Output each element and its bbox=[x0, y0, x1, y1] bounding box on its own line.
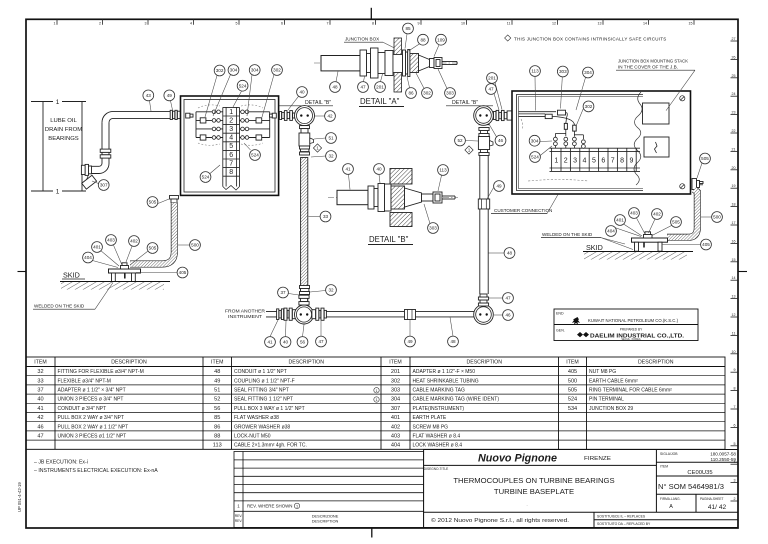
pull box 3 way item 56 bbox=[295, 305, 314, 324]
svg-text:524: 524 bbox=[202, 175, 210, 180]
svg-text:401: 401 bbox=[616, 218, 624, 223]
svg-text:48: 48 bbox=[214, 369, 220, 375]
svg-text:ITEM: ITEM bbox=[389, 360, 401, 366]
svg-text:13: 13 bbox=[598, 22, 602, 26]
svg-text:DESCRIPTION: DESCRIPTION bbox=[638, 360, 674, 366]
svg-text:56: 56 bbox=[300, 340, 306, 345]
svg-text:4: 4 bbox=[190, 22, 192, 26]
svg-text:SEAL FITTING 1 1/2" NPT: SEAL FITTING 1 1/2" NPT bbox=[234, 397, 293, 403]
balloon 404 lock washer bbox=[83, 252, 94, 263]
mounting stack rect lower bbox=[644, 137, 669, 157]
svg-text:DISEGNO-TITLE: DISEGNO-TITLE bbox=[424, 467, 448, 471]
balloon 85 flat washer bbox=[403, 23, 414, 34]
svg-text:500: 500 bbox=[713, 215, 721, 220]
svg-text:33: 33 bbox=[37, 378, 43, 384]
svg-text:49: 49 bbox=[496, 184, 502, 189]
svg-text:PLATE(INSTRUMENT): PLATE(INSTRUMENT) bbox=[413, 406, 465, 412]
svg-text:THIS JUNCTION BOX CONTAINS INT: THIS JUNCTION BOX CONTAINS INTRINSICALLY… bbox=[514, 36, 667, 41]
detail B centerline bbox=[328, 197, 458, 199]
svg-text:21: 21 bbox=[732, 147, 736, 151]
left JB internal wires right side bbox=[240, 110, 277, 140]
svg-text:JUNCTION BOX: JUNCTION BOX bbox=[345, 37, 379, 42]
svg-text:JUNCTION BOX 29: JUNCTION BOX 29 bbox=[589, 406, 633, 412]
svg-text:DETAIL "B": DETAIL "B" bbox=[452, 100, 478, 106]
execution notes bbox=[34, 460, 158, 475]
fold mark bottom center bbox=[371, 528, 373, 538]
svg-text:401: 401 bbox=[93, 245, 101, 250]
svg-text:47: 47 bbox=[360, 85, 366, 90]
fold mark left middle bbox=[18, 271, 27, 273]
svg-text:DESCRIPTION: DESCRIPTION bbox=[111, 360, 147, 366]
svg-text:304: 304 bbox=[584, 70, 592, 75]
svg-text:524: 524 bbox=[239, 83, 247, 88]
svg-text:19: 19 bbox=[732, 184, 736, 188]
pull box item 46 top bbox=[474, 106, 494, 126]
svg-text:FROM ANOTHER: FROM ANOTHER bbox=[225, 309, 265, 314]
svg-text:SEOUL, KOREA: SEOUL, KOREA bbox=[621, 337, 641, 341]
balloon 32 flexible fitting bbox=[326, 285, 337, 296]
union item 47 above right pull box bbox=[478, 294, 488, 306]
svg-text:ITEM: ITEM bbox=[211, 360, 223, 366]
svg-text:LOCK WASHER ø 8.4: LOCK WASHER ø 8.4 bbox=[413, 443, 463, 449]
balloon 48 conduit bbox=[504, 248, 515, 259]
svg-text:48: 48 bbox=[450, 339, 456, 344]
svg-text:42: 42 bbox=[37, 415, 43, 421]
svg-text:2: 2 bbox=[734, 497, 736, 501]
balloon 524 pin terminal bbox=[200, 172, 211, 183]
detail B reference label left bbox=[279, 100, 333, 106]
flexible end fitting item 32 bottom bbox=[300, 286, 310, 299]
balloon 505 ring terminal bbox=[671, 217, 682, 228]
svg-text:524: 524 bbox=[568, 397, 577, 403]
svg-text:ITEM: ITEM bbox=[34, 360, 46, 366]
balloon 403 flat washer bbox=[106, 235, 117, 246]
customer companies box bbox=[554, 309, 698, 341]
svg-text:404: 404 bbox=[391, 443, 400, 449]
revision row 1 bbox=[237, 503, 299, 508]
revision diamond 1 bbox=[465, 146, 473, 154]
svg-text:.: . bbox=[526, 502, 527, 507]
svg-text:16: 16 bbox=[732, 239, 736, 243]
union 47 and adapter 201 at right JB entry bbox=[494, 110, 513, 120]
svg-text:47: 47 bbox=[488, 87, 494, 92]
svg-text:IN THE COVER OF THE J.B.: IN THE COVER OF THE J.B. bbox=[618, 64, 678, 69]
fittings right of pull box 56 bbox=[312, 308, 327, 320]
svg-text:8: 8 bbox=[734, 387, 736, 391]
svg-text:SIGLA/JOB: SIGLA/JOB bbox=[660, 452, 678, 456]
customer connection label bbox=[491, 195, 558, 214]
balloon 33 flexible bbox=[320, 211, 331, 222]
svg-text:302: 302 bbox=[423, 91, 431, 96]
balloon 47 union bbox=[358, 82, 369, 93]
svg-text:RING TERMINAL FOR CABLE 6mm²: RING TERMINAL FOR CABLE 6mm² bbox=[589, 388, 672, 394]
svg-text:2: 2 bbox=[229, 117, 233, 124]
balloon 40 union bbox=[297, 87, 308, 98]
svg-text:EARTH PLATE: EARTH PLATE bbox=[413, 415, 447, 421]
conduit item 48 riser bbox=[480, 156, 488, 295]
svg-text:403: 403 bbox=[107, 238, 115, 243]
svg-text:3: 3 bbox=[573, 158, 577, 165]
svg-text:PULL BOX 2 WAY ø 3/4" NPT: PULL BOX 2 WAY ø 3/4" NPT bbox=[58, 415, 125, 421]
svg-text:41/ 42: 41/ 42 bbox=[708, 504, 727, 511]
svg-text:10: 10 bbox=[461, 22, 465, 26]
balloon 46 pull box bbox=[495, 135, 506, 146]
svg-text:A: A bbox=[669, 504, 673, 510]
svg-text:52: 52 bbox=[214, 397, 220, 403]
svg-text:FIRMA-LANG.: FIRMA-LANG. bbox=[660, 497, 681, 501]
svg-text:1: 1 bbox=[229, 109, 233, 116]
svg-text:302: 302 bbox=[391, 378, 400, 384]
svg-text:1: 1 bbox=[375, 389, 377, 393]
svg-text:48: 48 bbox=[332, 85, 338, 90]
detail A centerline bbox=[314, 62, 460, 64]
cable fitting detail B bbox=[422, 192, 456, 203]
mounting stack rect upper bbox=[643, 103, 670, 124]
svg-text:UP 051-4-42-19: UP 051-4-42-19 bbox=[17, 482, 22, 512]
balloon 303 cable tag bbox=[428, 223, 439, 234]
union item 40 detail B bbox=[368, 184, 385, 212]
wire branches to terminals with pin terminals item 524 bbox=[554, 134, 586, 149]
svg-text:304: 304 bbox=[251, 68, 259, 73]
svg-text:86: 86 bbox=[214, 424, 220, 430]
right edge coordinate ticks bbox=[731, 37, 739, 501]
svg-text:HEAT SHRINKABLE TUBING: HEAT SHRINKABLE TUBING bbox=[413, 378, 479, 384]
svg-text:BEARINGS: BEARINGS bbox=[48, 136, 79, 142]
svg-text:CE00U35: CE00U35 bbox=[687, 470, 712, 476]
svg-text:505: 505 bbox=[149, 200, 157, 205]
union item 40 fittings at left JB exit wall bbox=[279, 111, 295, 121]
svg-text:505: 505 bbox=[672, 220, 680, 225]
svg-text:46: 46 bbox=[37, 424, 43, 430]
svg-text:56: 56 bbox=[214, 406, 220, 412]
svg-text:201: 201 bbox=[391, 369, 400, 375]
svg-text:CONDUIT ø 1 1/2" NPT: CONDUIT ø 1 1/2" NPT bbox=[234, 369, 287, 375]
wire conduit item 43 horizontal run bbox=[102, 111, 170, 149]
conduit item 41 detail B bbox=[337, 190, 368, 204]
svg-text:EARTH CABLE 6mm²: EARTH CABLE 6mm² bbox=[589, 378, 638, 384]
svg-text:52: 52 bbox=[457, 138, 463, 143]
svg-text:3: 3 bbox=[734, 479, 736, 483]
svg-text:9: 9 bbox=[734, 368, 736, 372]
svg-text:SKID: SKID bbox=[63, 271, 80, 280]
svg-text:1: 1 bbox=[56, 99, 60, 106]
detail A title bbox=[359, 97, 404, 107]
KNPC row bbox=[556, 312, 679, 325]
DAELIM row bbox=[556, 328, 685, 342]
svg-text:49: 49 bbox=[167, 93, 173, 98]
svg-text:88: 88 bbox=[420, 37, 426, 42]
svg-text:PULL BOX 3 WAY ø 1 1/2" NPT: PULL BOX 3 WAY ø 1 1/2" NPT bbox=[234, 406, 305, 412]
left JB terminal strip bbox=[223, 107, 240, 190]
coupling item 49 bbox=[405, 310, 416, 320]
svg-text:180.0057-58: 180.0057-58 bbox=[710, 452, 736, 457]
balloon 88 locknut bbox=[418, 34, 429, 45]
svg-text:303: 303 bbox=[446, 91, 454, 96]
svg-text:3: 3 bbox=[229, 126, 233, 133]
svg-text:302: 302 bbox=[585, 104, 593, 109]
balloon 37 adapter bbox=[278, 287, 289, 298]
balloon 40 union bbox=[374, 164, 385, 175]
coupling item 49 at JB wall bbox=[170, 110, 180, 119]
balloon 51 seal fitting bbox=[326, 133, 337, 144]
svg-text:6: 6 bbox=[229, 152, 233, 159]
from another instrument note bbox=[225, 309, 265, 319]
svg-text:505: 505 bbox=[701, 156, 709, 161]
svg-text:500: 500 bbox=[568, 378, 577, 384]
svg-text:CABLE MARKING TAG: CABLE MARKING TAG bbox=[413, 388, 465, 394]
revision header row bbox=[235, 514, 339, 524]
svg-text:DESCRIPTION: DESCRIPTION bbox=[467, 360, 503, 366]
svg-text:UNION 3 PIECES ø1 1/2" NPT: UNION 3 PIECES ø1 1/2" NPT bbox=[58, 434, 127, 440]
svg-text:4: 4 bbox=[229, 135, 233, 142]
language cell bbox=[660, 497, 681, 510]
svg-text:86: 86 bbox=[408, 91, 414, 96]
fold mark top center bbox=[370, 8, 372, 19]
svg-text:307: 307 bbox=[391, 406, 400, 412]
balloon 524 pin terminal bbox=[237, 80, 248, 91]
svg-text:524: 524 bbox=[531, 155, 539, 160]
svg-text:JUNCTION BOX MOUNTING STACK: JUNCTION BOX MOUNTING STACK bbox=[618, 59, 688, 64]
svg-text:40: 40 bbox=[37, 397, 43, 403]
conduit below union to elbow bbox=[92, 158, 110, 173]
svg-text:CONDUIT ø 3/4" NPT: CONDUIT ø 3/4" NPT bbox=[58, 406, 107, 412]
svg-text:COUPLING ø 1 1/2" NPT-F: COUPLING ø 1 1/2" NPT-F bbox=[234, 378, 295, 384]
svg-text:DRAIN FROM: DRAIN FROM bbox=[45, 127, 82, 133]
balloon 304 wire tag bbox=[583, 67, 594, 78]
svg-text:8: 8 bbox=[229, 169, 233, 176]
svg-text:PAGINA-SHEET: PAGINA-SHEET bbox=[700, 497, 724, 501]
customer cable item 113 entry bbox=[519, 110, 575, 125]
welded note left bbox=[33, 283, 113, 310]
svg-text:3: 3 bbox=[145, 22, 147, 26]
svg-text:403: 403 bbox=[391, 434, 400, 440]
svg-text:FLAT WASHER ø38: FLAT WASHER ø38 bbox=[234, 415, 279, 421]
svg-text:END: END bbox=[556, 312, 564, 316]
svg-text:302: 302 bbox=[216, 68, 224, 73]
balloon 402 screw bbox=[652, 209, 663, 220]
balloon 505 ring terminal bbox=[700, 153, 711, 164]
svg-text:51: 51 bbox=[214, 388, 220, 394]
right junction box item 534 outline bbox=[512, 91, 691, 194]
svg-text:27: 27 bbox=[732, 37, 736, 41]
junction box wall label bbox=[344, 37, 395, 49]
revision diamond 1 bbox=[313, 144, 321, 152]
balloon 505 ring terminal bbox=[147, 197, 158, 208]
balloon 32 flexible fitting bbox=[326, 151, 337, 162]
drawing title bbox=[424, 467, 615, 507]
svg-text:WELDED ON THE SKID: WELDED ON THE SKID bbox=[542, 232, 593, 237]
svg-text:6: 6 bbox=[281, 22, 283, 26]
pull box item 42 circle bbox=[295, 106, 315, 126]
svg-text:14: 14 bbox=[643, 22, 647, 26]
svg-text:51: 51 bbox=[328, 136, 334, 141]
svg-text:505: 505 bbox=[568, 388, 577, 394]
svg-text:DETAIL "A": DETAIL "A" bbox=[360, 97, 400, 106]
revision history table bbox=[234, 452, 424, 528]
svg-text:11: 11 bbox=[507, 22, 511, 26]
balloon 46 pull box bbox=[503, 310, 514, 321]
fold mark right middle bbox=[738, 271, 747, 273]
svg-text:402: 402 bbox=[653, 212, 661, 217]
items table grid bbox=[26, 357, 725, 449]
balloon 41 conduit bbox=[265, 337, 276, 348]
svg-text:FIRENZE: FIRENZE bbox=[584, 456, 612, 462]
svg-text:32: 32 bbox=[328, 288, 334, 293]
balloon 49 coupling bbox=[494, 181, 505, 192]
intrinsically safe note bbox=[505, 35, 667, 42]
balloon 201 adapter bbox=[487, 73, 498, 84]
svg-text:109: 109 bbox=[437, 37, 445, 42]
svg-text:33: 33 bbox=[323, 214, 329, 219]
svg-text:8: 8 bbox=[372, 22, 374, 26]
detail B reference label right bbox=[446, 100, 493, 106]
balloon 113 cable bbox=[530, 66, 541, 77]
balloon 109 cable bbox=[436, 34, 447, 45]
instrument plate item 307 bbox=[82, 175, 97, 189]
earth fitting on right JB wall bbox=[692, 179, 703, 190]
balloon 49 coupling bbox=[164, 90, 175, 101]
balloon 303 cable tag bbox=[445, 88, 456, 99]
svg-text:REV.: REV. bbox=[235, 514, 243, 518]
balloon 86 grower washer bbox=[406, 88, 417, 99]
balloon 302 heat shrink bbox=[583, 101, 594, 112]
svg-text:5: 5 bbox=[229, 143, 233, 150]
seal fitting item 51 below pull box bbox=[299, 126, 314, 155]
balloon 201 adapter bbox=[375, 82, 386, 93]
cable sheath dashed arcs bbox=[198, 105, 263, 145]
locknut item 88 and washers bbox=[403, 50, 410, 77]
left junction box item 534 outline bbox=[181, 96, 279, 195]
svg-text:402: 402 bbox=[391, 424, 400, 430]
svg-text:– JB EXECUTION: Ex-i: – JB EXECUTION: Ex-i bbox=[34, 460, 88, 466]
svg-text:REV. WHERE SHOWN: REV. WHERE SHOWN bbox=[247, 504, 292, 509]
svg-text:25: 25 bbox=[732, 74, 736, 78]
skid line left bbox=[60, 271, 170, 290]
svg-text:46: 46 bbox=[505, 313, 511, 318]
pull box top neck bbox=[299, 295, 309, 305]
svg-text:500: 500 bbox=[191, 243, 199, 248]
sheath dashed arc bbox=[521, 119, 588, 181]
balloon 47 union bbox=[486, 84, 497, 95]
balloon 304 wire tag bbox=[529, 135, 540, 146]
svg-text:FITTING FOR FLEXIBLE ø3/4" NPT: FITTING FOR FLEXIBLE ø3/4" NPT-M bbox=[58, 369, 144, 375]
svg-text:DESCRIPTION: DESCRIPTION bbox=[289, 360, 325, 366]
items table text bbox=[34, 360, 673, 449]
svg-text:405: 405 bbox=[702, 242, 710, 247]
welded note right bbox=[541, 232, 633, 250]
detail B title bbox=[368, 235, 413, 245]
svg-text:ADAPTER ø 1 1/2"-F × M50: ADAPTER ø 1 1/2"-F × M50 bbox=[413, 369, 476, 375]
svg-text:47: 47 bbox=[505, 296, 511, 301]
svg-text:© 2012 Nuovo Pignone S.r.l., a: © 2012 Nuovo Pignone S.r.l., all rights … bbox=[431, 517, 569, 524]
title block frame bbox=[424, 450, 738, 528]
svg-text:201: 201 bbox=[376, 85, 384, 90]
svg-text:304: 304 bbox=[531, 138, 539, 143]
svg-text:7: 7 bbox=[327, 22, 329, 26]
svg-text:REV.: REV. bbox=[235, 519, 243, 523]
svg-text:5: 5 bbox=[734, 442, 736, 446]
svg-text:22: 22 bbox=[732, 129, 736, 133]
svg-text:88: 88 bbox=[214, 434, 220, 440]
svg-text:37: 37 bbox=[280, 290, 286, 295]
svg-text:9: 9 bbox=[630, 158, 634, 165]
svg-text:4: 4 bbox=[583, 158, 587, 165]
svg-text:12: 12 bbox=[552, 22, 556, 26]
svg-text:UNION 3 PIECES ø 3/4" NPT: UNION 3 PIECES ø 3/4" NPT bbox=[58, 397, 124, 403]
balloon 48 conduit bbox=[448, 336, 459, 347]
svg-text:CUSTOMER CONNECTION: CUSTOMER CONNECTION bbox=[494, 208, 552, 213]
svg-text:DETAIL "B": DETAIL "B" bbox=[305, 100, 331, 106]
earth plate right bbox=[632, 232, 668, 251]
svg-text:SKID: SKID bbox=[586, 243, 603, 252]
svg-text:1: 1 bbox=[54, 22, 56, 26]
svg-text:FLAT WASHER ø 8.4: FLAT WASHER ø 8.4 bbox=[413, 434, 461, 440]
balloon 402 screw bbox=[129, 236, 140, 247]
svg-text:49: 49 bbox=[214, 378, 220, 384]
svg-text:47: 47 bbox=[318, 339, 324, 344]
svg-text:LOCK-NUT M50: LOCK-NUT M50 bbox=[234, 434, 271, 440]
svg-text:110.2550-59: 110.2550-59 bbox=[711, 457, 737, 462]
svg-text:23: 23 bbox=[732, 111, 736, 115]
balloon 49 coupling bbox=[405, 336, 416, 347]
balloon 405 nut bbox=[701, 239, 712, 250]
svg-text:41: 41 bbox=[345, 167, 351, 172]
svg-text:405: 405 bbox=[568, 369, 577, 375]
balloon 500 earth cable bbox=[190, 240, 201, 251]
svg-text:SOSTITUITO DA – REPLACED BY: SOSTITUITO DA – REPLACED BY bbox=[597, 522, 651, 526]
adapter item 201 detail A bbox=[378, 51, 393, 76]
svg-text:37: 37 bbox=[37, 388, 43, 394]
revision circle marks rows 51 52 bbox=[374, 388, 379, 403]
svg-text:11: 11 bbox=[732, 331, 736, 335]
sheet cell bbox=[700, 497, 726, 511]
svg-text:303: 303 bbox=[559, 69, 567, 74]
svg-text:304: 304 bbox=[230, 68, 238, 73]
svg-text:32: 32 bbox=[37, 369, 43, 375]
svg-text:TURBINE BASEPLATE: TURBINE BASEPLATE bbox=[494, 487, 574, 496]
earth cable item 500 left bbox=[130, 203, 174, 265]
svg-text:LUBE OIL: LUBE OIL bbox=[50, 118, 77, 124]
svg-text:SOSTITUISCE IL – REPLACES: SOSTITUISCE IL – REPLACES bbox=[597, 515, 646, 519]
svg-text:14: 14 bbox=[732, 276, 736, 280]
svg-text:18: 18 bbox=[732, 203, 736, 207]
svg-text:CABLE MARKING TAG (WIRE IDENT): CABLE MARKING TAG (WIRE IDENT) bbox=[413, 397, 500, 403]
balloon 304 cable tag bbox=[228, 65, 239, 76]
svg-text:85: 85 bbox=[405, 26, 411, 31]
conduit item 48 detail A bbox=[321, 56, 360, 71]
svg-text:40: 40 bbox=[299, 90, 305, 95]
balloon 42 pull box 2way bbox=[325, 111, 336, 122]
svg-text:42: 42 bbox=[327, 114, 333, 119]
svg-text:85: 85 bbox=[214, 415, 220, 421]
svg-text:201: 201 bbox=[488, 76, 496, 81]
svg-text:524: 524 bbox=[251, 153, 259, 158]
svg-text:PIN TERMINAL: PIN TERMINAL bbox=[589, 397, 624, 403]
svg-text:5: 5 bbox=[236, 22, 238, 26]
balloon 302 heat shrink tube bbox=[214, 65, 225, 76]
svg-text:1: 1 bbox=[296, 505, 298, 509]
cover screw top right bbox=[680, 96, 685, 101]
balloon 405 nut bbox=[177, 267, 188, 278]
svg-text:403: 403 bbox=[630, 211, 638, 216]
junction box mounting stack note bbox=[616, 59, 695, 111]
earth cable item 500 right bbox=[667, 190, 697, 238]
svg-text:1: 1 bbox=[554, 158, 558, 165]
union item 47 detail A bbox=[360, 48, 378, 78]
svg-text:302: 302 bbox=[273, 68, 281, 73]
svg-text:KUWAIT NATIONAL PETROLEUM CO.(: KUWAIT NATIONAL PETROLEUM CO.(K.S.C.) bbox=[588, 318, 679, 323]
balloon 404 lock washer bbox=[606, 226, 617, 237]
